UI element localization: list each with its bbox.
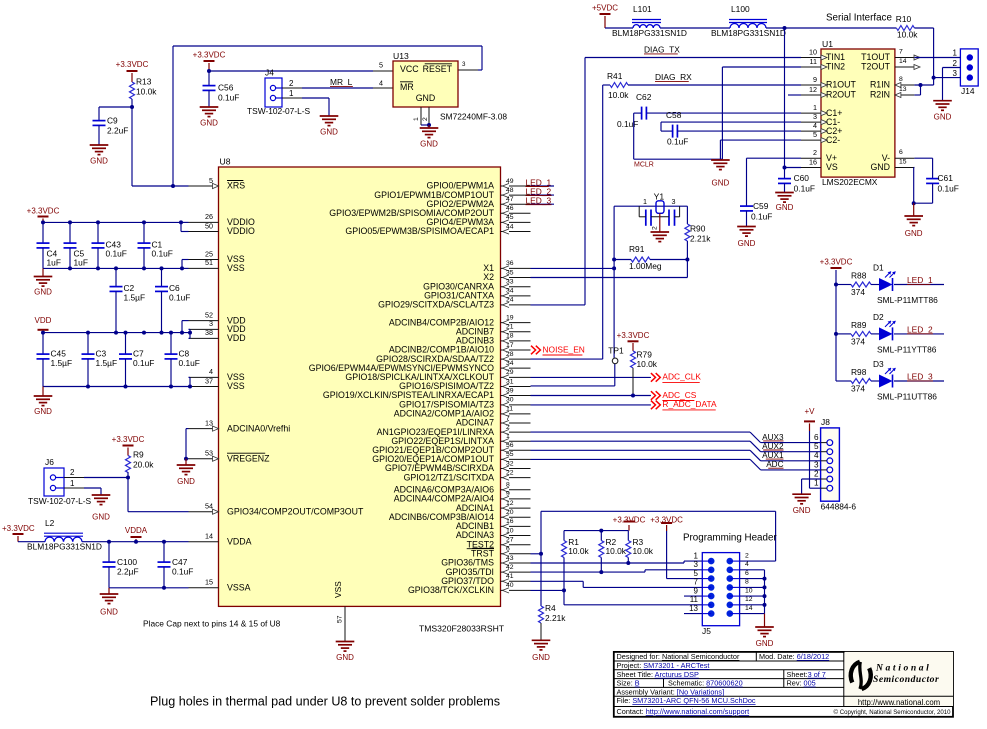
svg-text:AUX3: AUX3: [762, 433, 784, 442]
svg-text:3: 3: [462, 61, 466, 68]
svg-text:AUX1: AUX1: [762, 451, 784, 460]
svg-text:C61: C61: [938, 173, 954, 183]
svg-text:C9: C9: [107, 116, 118, 126]
svg-text:GND: GND: [34, 288, 52, 297]
svg-text:374: 374: [851, 384, 865, 394]
svg-text:1uF: 1uF: [74, 258, 88, 268]
svg-text:GND: GND: [793, 506, 811, 515]
svg-text:0.1uF: 0.1uF: [152, 249, 173, 259]
svg-text:D2: D2: [873, 312, 884, 322]
svg-text:J8: J8: [821, 417, 830, 427]
svg-text:R2OUT: R2OUT: [826, 90, 856, 100]
svg-text:R90: R90: [690, 224, 706, 234]
svg-text:57: 57: [337, 615, 344, 623]
svg-text:R4: R4: [545, 603, 556, 613]
svg-text:13: 13: [899, 86, 907, 93]
svg-text:VDDA: VDDA: [227, 536, 252, 546]
svg-text:3: 3: [209, 319, 213, 328]
svg-text:MCLR: MCLR: [634, 162, 654, 169]
svg-text:1: 1: [289, 89, 294, 98]
svg-text:VDDIO: VDDIO: [227, 226, 255, 236]
svg-text:Place Cap next to pins 14 & 15: Place Cap next to pins 14 & 15 of U8: [143, 619, 281, 629]
svg-text:0.1uF: 0.1uF: [172, 567, 193, 577]
svg-text:BLM18PG331SN1D: BLM18PG331SN1D: [711, 28, 786, 38]
svg-text:15: 15: [205, 578, 213, 587]
svg-text:LED_3: LED_3: [907, 372, 933, 382]
svg-text:Plug holes in thermal pad unde: Plug holes in thermal pad under U8 to pr…: [150, 695, 500, 709]
svg-text:1: 1: [694, 551, 699, 560]
svg-text:GND: GND: [177, 477, 195, 486]
svg-text:1: 1: [953, 49, 958, 58]
svg-text:14: 14: [899, 58, 907, 65]
svg-text:SML-P11MTT86: SML-P11MTT86: [877, 295, 938, 305]
svg-text:C60: C60: [794, 173, 810, 183]
svg-text:10.0k: 10.0k: [633, 546, 654, 556]
svg-text:4: 4: [813, 121, 817, 130]
svg-text:VSS: VSS: [227, 263, 245, 273]
svg-text:GND: GND: [738, 239, 756, 248]
svg-text:D3: D3: [873, 359, 884, 369]
svg-text:10.0k: 10.0k: [637, 359, 658, 369]
svg-text:J5: J5: [702, 626, 711, 636]
svg-text:7: 7: [899, 49, 903, 56]
svg-text:2: 2: [813, 148, 817, 157]
svg-text:GND: GND: [532, 653, 550, 662]
svg-text:TP1: TP1: [608, 346, 624, 356]
svg-text:+3.3VDC: +3.3VDC: [650, 515, 683, 524]
svg-text:15: 15: [899, 159, 907, 166]
svg-text:R_ADC_DATA: R_ADC_DATA: [662, 399, 717, 409]
svg-text:+3.3VDC: +3.3VDC: [2, 524, 35, 533]
svg-text:R41: R41: [607, 71, 623, 81]
svg-text:GPIO05/EPWM3B/SPISIMOA/ECAP1: GPIO05/EPWM3B/SPISIMOA/ECAP1: [345, 226, 494, 236]
svg-text:C100: C100: [117, 557, 137, 567]
svg-text:AUX2: AUX2: [762, 442, 784, 451]
svg-text:Mod. Date: 6/18/2012: Mod. Date: 6/18/2012: [759, 652, 829, 661]
svg-text:R13: R13: [136, 77, 152, 87]
svg-text:0.1uF: 0.1uF: [169, 293, 190, 303]
svg-text:1.5µF: 1.5µF: [51, 358, 73, 368]
svg-text:U13: U13: [393, 51, 409, 61]
svg-text:R1IN: R1IN: [870, 80, 890, 90]
svg-text:51: 51: [205, 258, 213, 267]
svg-text:BLM18PG331SN1D: BLM18PG331SN1D: [27, 542, 102, 552]
svg-text:SML-P11YTT86: SML-P11YTT86: [877, 345, 937, 355]
svg-text:J6: J6: [45, 457, 54, 467]
svg-text:C58: C58: [666, 110, 682, 120]
svg-text:+3.3VDC: +3.3VDC: [27, 206, 60, 215]
svg-text:374: 374: [851, 287, 865, 297]
svg-text:J14: J14: [961, 86, 975, 96]
svg-text:National: National: [875, 663, 931, 674]
svg-text:GND: GND: [336, 653, 354, 662]
svg-text:T2OUT: T2OUT: [861, 62, 890, 72]
svg-text:C2-: C2-: [826, 135, 840, 145]
svg-text:25: 25: [205, 249, 213, 258]
svg-text:2: 2: [289, 79, 294, 88]
svg-text:0.1uF: 0.1uF: [794, 184, 815, 194]
svg-text:1: 1: [413, 117, 420, 121]
svg-text:53: 53: [205, 449, 213, 458]
svg-text:3: 3: [953, 69, 958, 78]
svg-text:R89: R89: [851, 320, 867, 330]
svg-text:1: 1: [643, 197, 647, 206]
svg-text:R10: R10: [896, 14, 912, 24]
svg-text:5: 5: [694, 569, 699, 578]
svg-text:0.1uF: 0.1uF: [617, 119, 638, 129]
svg-text:TSW-102-07-L-S: TSW-102-07-L-S: [247, 106, 311, 116]
svg-text:R2IN: R2IN: [870, 90, 890, 100]
svg-text:+V: +V: [804, 407, 815, 416]
svg-text:C59: C59: [753, 201, 769, 211]
svg-text:D1: D1: [873, 263, 884, 273]
svg-text:© Copyright, National Semicond: © Copyright, National Semiconductor, 201…: [834, 709, 952, 716]
svg-text:+5VDC: +5VDC: [592, 3, 618, 12]
svg-text:GND: GND: [320, 127, 338, 136]
svg-text:GND: GND: [712, 178, 730, 187]
svg-text:7: 7: [694, 578, 699, 587]
svg-text:DIAG_RX: DIAG_RX: [655, 72, 692, 82]
svg-text:GND: GND: [420, 139, 438, 148]
svg-text:T1OUT: T1OUT: [861, 52, 890, 62]
svg-text:50: 50: [205, 221, 213, 230]
svg-text:GND: GND: [34, 407, 52, 416]
svg-text:GND: GND: [870, 162, 890, 172]
svg-text:GND: GND: [90, 156, 108, 165]
svg-text:0.1uF: 0.1uF: [938, 184, 959, 194]
svg-text:13: 13: [205, 418, 213, 427]
svg-text:Rev: 005: Rev: 005: [787, 679, 816, 688]
svg-text:GPIO29/SCITXDA/SCLA/TZ3: GPIO29/SCITXDA/SCLA/TZ3: [378, 300, 494, 310]
svg-text:Semiconductor: Semiconductor: [873, 674, 939, 685]
svg-text:GND: GND: [100, 607, 118, 616]
svg-text:ADC_CLK: ADC_CLK: [662, 372, 701, 382]
svg-text:20.0k: 20.0k: [133, 460, 154, 470]
svg-text:VCC: VCC: [400, 64, 419, 74]
svg-text:C56: C56: [218, 83, 234, 93]
svg-text:1: 1: [814, 479, 819, 488]
svg-text:4: 4: [379, 78, 383, 87]
svg-text:1: 1: [813, 103, 817, 112]
svg-text:2: 2: [422, 117, 429, 121]
svg-text:12: 12: [809, 85, 817, 94]
svg-text:10.0k: 10.0k: [136, 87, 157, 97]
svg-text:2.2uF: 2.2uF: [107, 126, 128, 136]
svg-text:C47: C47: [172, 557, 188, 567]
svg-text:Serial Interface: Serial Interface: [826, 12, 892, 23]
svg-text:0.1uF: 0.1uF: [667, 137, 688, 147]
svg-text:GND: GND: [776, 203, 794, 212]
svg-text:Designed for: National Semicon: Designed for: National Semiconductor: [617, 652, 740, 661]
svg-text:XRS: XRS: [227, 181, 245, 191]
svg-text:R88: R88: [851, 271, 867, 281]
svg-text:VDDA: VDDA: [125, 526, 148, 535]
svg-text:2: 2: [953, 59, 958, 68]
svg-text:2: 2: [814, 469, 819, 478]
svg-text:GPIO12/TZ1/SCITXDA: GPIO12/TZ1/SCITXDA: [404, 472, 495, 482]
svg-text:L2: L2: [45, 518, 55, 528]
svg-text:3: 3: [814, 460, 819, 469]
svg-text:2.2µF: 2.2µF: [117, 567, 139, 577]
svg-text:5: 5: [814, 442, 819, 451]
svg-text:VDD: VDD: [227, 333, 246, 343]
svg-text:GND: GND: [905, 229, 923, 238]
svg-text:LED_2: LED_2: [907, 325, 933, 335]
svg-text:0.1uF: 0.1uF: [179, 358, 200, 368]
svg-text:Sheet:3 of 7: Sheet:3 of 7: [787, 670, 826, 679]
svg-text:GPIO34/COMP2OUT/COMP3OUT: GPIO34/COMP2OUT/COMP3OUT: [227, 506, 364, 516]
svg-text:3: 3: [694, 560, 699, 569]
svg-text:R9: R9: [133, 450, 144, 460]
svg-text:LED_3: LED_3: [526, 196, 552, 206]
svg-text:RESET: RESET: [423, 64, 453, 74]
svg-text:R91: R91: [629, 244, 645, 254]
svg-text:11: 11: [690, 595, 699, 604]
svg-text:16: 16: [809, 157, 817, 166]
svg-text:8: 8: [899, 76, 903, 83]
svg-text:C62: C62: [636, 92, 652, 102]
svg-text:GPIO38/TCK/XCLKIN: GPIO38/TCK/XCLKIN: [408, 585, 494, 595]
svg-text:Schematic: 870600620: Schematic: 870600620: [668, 679, 743, 688]
svg-text:6: 6: [745, 570, 749, 577]
svg-text:BLM18PG331SN1D: BLM18PG331SN1D: [612, 28, 687, 38]
svg-text:SM72240MF-3.08: SM72240MF-3.08: [440, 112, 507, 122]
svg-text:L100: L100: [731, 4, 750, 14]
svg-text:J4: J4: [265, 68, 274, 78]
svg-text:3: 3: [672, 197, 676, 206]
svg-text:6: 6: [899, 149, 903, 156]
svg-text:GND: GND: [756, 639, 774, 648]
svg-text:4: 4: [745, 561, 749, 568]
svg-text:8: 8: [745, 579, 749, 586]
svg-text:10: 10: [745, 587, 753, 594]
svg-text:14: 14: [745, 605, 753, 612]
svg-text:U8: U8: [220, 156, 231, 166]
svg-text:2: 2: [652, 226, 659, 230]
svg-text:MR_L: MR_L: [330, 77, 353, 87]
svg-text:1.00Meg: 1.00Meg: [629, 261, 662, 271]
svg-text:Programming Header: Programming Header: [683, 532, 777, 543]
svg-text:TSW-102-07-L-S: TSW-102-07-L-S: [28, 496, 92, 506]
svg-text:U1: U1: [822, 39, 833, 49]
svg-text:14: 14: [205, 532, 213, 541]
svg-text:9: 9: [813, 75, 817, 84]
svg-text:13: 13: [689, 604, 698, 613]
svg-text:374: 374: [851, 337, 865, 347]
svg-text:6: 6: [814, 433, 819, 442]
svg-text:26: 26: [205, 212, 213, 221]
svg-text:VS: VS: [826, 162, 838, 172]
svg-text:+3.3VDC: +3.3VDC: [112, 435, 145, 444]
svg-text:12: 12: [745, 596, 753, 603]
svg-text:NOISE_EN: NOISE_EN: [543, 344, 585, 354]
svg-text:VDD: VDD: [35, 316, 52, 325]
svg-text:TIN1: TIN1: [826, 52, 845, 62]
svg-text:0.1uF: 0.1uF: [133, 358, 154, 368]
svg-text:GND: GND: [92, 512, 110, 521]
svg-text:VSSA: VSSA: [227, 583, 251, 593]
svg-text:11: 11: [810, 57, 817, 66]
svg-text:GND: GND: [934, 112, 952, 121]
svg-text:644884-6: 644884-6: [821, 501, 857, 511]
svg-text:10.0k: 10.0k: [606, 546, 627, 556]
svg-text:1.5µF: 1.5µF: [96, 358, 118, 368]
svg-text:http://www.national.com: http://www.national.com: [858, 698, 940, 707]
svg-text:File: SM73201-ARC QFN-56 MCU.S: File: SM73201-ARC QFN-56 MCU.SchDoc: [617, 696, 756, 705]
svg-text:9: 9: [694, 586, 699, 595]
svg-text:37: 37: [205, 376, 213, 385]
svg-text:3: 3: [813, 112, 817, 121]
svg-text:0.1uF: 0.1uF: [218, 93, 239, 103]
svg-text:1uF: 1uF: [47, 258, 61, 268]
svg-text:52: 52: [205, 310, 213, 319]
svg-text:+3.3VDC: +3.3VDC: [820, 257, 853, 266]
svg-text:Contact: http://www.national.: Contact: http://www.national.com/support: [617, 707, 750, 716]
svg-text:2: 2: [745, 552, 749, 559]
svg-text:Project: SM73201 - ARCTest: Project: SM73201 - ARCTest: [617, 661, 710, 670]
svg-text:10.0k: 10.0k: [897, 30, 918, 40]
svg-text:54: 54: [205, 502, 213, 511]
svg-text:MR: MR: [400, 82, 414, 92]
svg-text:R1OUT: R1OUT: [826, 80, 856, 90]
svg-text:VSS: VSS: [227, 381, 245, 391]
svg-text:ADC: ADC: [766, 460, 783, 469]
svg-text:10.0k: 10.0k: [568, 546, 589, 556]
svg-text:38: 38: [205, 328, 213, 337]
svg-text:1.5µF: 1.5µF: [124, 293, 146, 303]
svg-text:TMS320F28033RSHT: TMS320F28033RSHT: [419, 623, 505, 633]
svg-text:GND: GND: [200, 118, 218, 127]
svg-text:ADCINA0/Vrefhi: ADCINA0/Vrefhi: [227, 423, 290, 433]
svg-text:VSS: VSS: [333, 581, 343, 598]
svg-text:GND: GND: [416, 93, 436, 103]
svg-text:0.1uF: 0.1uF: [106, 249, 127, 259]
svg-text:+3.3VDC: +3.3VDC: [613, 515, 646, 524]
svg-text:5: 5: [379, 60, 383, 69]
svg-text:TIN2: TIN2: [826, 62, 845, 72]
svg-text:SML-P11UTT86: SML-P11UTT86: [877, 392, 937, 402]
svg-text:2: 2: [70, 468, 75, 477]
svg-text:Sheet Title: Arcturus DSP: Sheet Title: Arcturus DSP: [617, 670, 699, 679]
svg-text:1: 1: [70, 479, 75, 488]
svg-text:2.21k: 2.21k: [545, 613, 566, 623]
svg-text:10.0k: 10.0k: [608, 90, 629, 100]
svg-text:DIAG_TX: DIAG_TX: [644, 45, 680, 55]
svg-text:2.21k: 2.21k: [690, 234, 711, 244]
svg-text:Size: B: Size: B: [617, 679, 640, 688]
svg-text:VREGENZ: VREGENZ: [227, 453, 270, 463]
svg-text:+3.3VDC: +3.3VDC: [116, 60, 149, 69]
svg-text:10: 10: [809, 47, 817, 56]
svg-text:+3.3VDC: +3.3VDC: [193, 50, 226, 59]
svg-text:0.1uF: 0.1uF: [751, 212, 772, 222]
svg-text:LED_1: LED_1: [907, 275, 933, 285]
svg-text:4: 4: [209, 367, 213, 376]
svg-text:+3.3VDC: +3.3VDC: [617, 331, 650, 340]
svg-text:Y1: Y1: [654, 191, 665, 201]
svg-text:5: 5: [813, 130, 817, 139]
svg-text:LMS202ECMX: LMS202ECMX: [822, 177, 878, 187]
svg-text:R98: R98: [851, 367, 867, 377]
svg-text:4: 4: [814, 451, 819, 460]
svg-text:L101: L101: [633, 4, 652, 14]
